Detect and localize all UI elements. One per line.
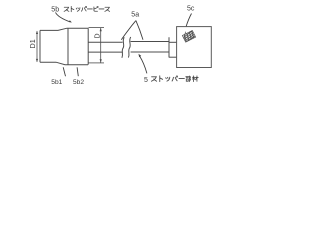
svg-text:D: D (94, 33, 101, 38)
svg-text:5b: 5b (51, 7, 59, 14)
svg-text:5c: 5c (187, 5, 195, 12)
svg-text:5: 5 (144, 77, 148, 84)
svg-text:5b2: 5b2 (73, 79, 84, 86)
svg-text:5b1: 5b1 (51, 79, 62, 86)
svg-text:5a: 5a (131, 12, 139, 19)
svg-text:D1: D1 (28, 39, 37, 48)
